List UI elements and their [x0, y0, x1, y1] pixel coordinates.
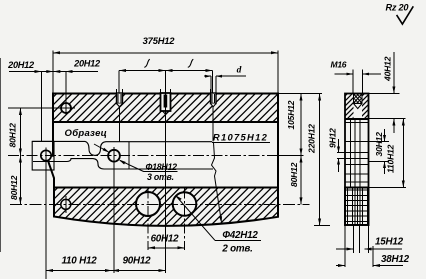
dimension l first [119, 59, 166, 93]
dimension 110H12 side [369, 119, 407, 188]
svg-text:80H12: 80H12 [8, 123, 18, 148]
specimen bottom edge [33, 159, 213, 169]
centerline right F18 circle vertical / 110-90H12 extension [113, 147, 115, 273]
centerline band hole 1 below [119, 107, 121, 142]
side view internal vertical lines [351, 119, 361, 225]
svg-text:38H12: 38H12 [381, 254, 410, 265]
dimension 60H12 between big circles [148, 234, 185, 250]
centerline lower F18 circle vertical [65, 196, 67, 213]
dimension 40H12 [369, 52, 406, 133]
svg-text:105H12: 105H12 [286, 100, 296, 129]
svg-text:60H12: 60H12 [151, 234, 180, 245]
dimension 220H12 right [307, 94, 331, 226]
band hole 1 (threaded) [117, 89, 123, 107]
scan edge artifact left border [0, 58, 2, 252]
svg-text:110H12: 110H12 [386, 144, 396, 173]
dimension 38H12 [336, 254, 410, 267]
lower F18 circle in hatched block [61, 199, 71, 209]
band hole 2 middle (with stud) [161, 89, 171, 114]
dimension 90H12 bottom [112, 256, 166, 273]
svg-text:20H12: 20H12 [73, 59, 101, 69]
svg-text:Ф18H12: Ф18H12 [146, 162, 178, 172]
dimension d (hole dia) [204, 66, 246, 94]
svg-text:15H12: 15H12 [375, 237, 404, 248]
svg-text:80H12: 80H12 [9, 175, 19, 200]
svg-text:Образец: Образец [65, 128, 108, 139]
svg-text:3 отв.: 3 отв. [147, 172, 174, 182]
specimen top edge right [95, 142, 212, 156]
side view top clamp hatched columns [322, 94, 390, 120]
upper clamp plate hatched band [28, 94, 301, 123]
leader F18H12 3 otv. with two arrows [94, 144, 178, 182]
centerline big circle 1 vertical [147, 189, 149, 251]
centerline band circle horizontal [8, 107, 75, 109]
centerline tab circle vertical / 110H12 extension [45, 148, 47, 279]
specimen tab rectangle [32, 141, 54, 170]
centerline lower circle row horizontal [10, 203, 310, 205]
svg-text:M16: M16 [331, 60, 347, 70]
big circle F42 no.2 [173, 192, 197, 216]
M16 threaded hole top [345, 94, 370, 109]
dimension 110H12 bottom left [46, 256, 112, 279]
svg-text:375H12: 375H12 [143, 35, 176, 46]
leader F42H12 2 otv. [175, 195, 261, 255]
dimension 30H12 [369, 129, 390, 174]
right F18 circle (3 holes callout target) [108, 150, 120, 162]
side view outer body [345, 94, 369, 226]
dimension 375H12 top [53, 35, 278, 94]
centerline band hole 3 below [212, 107, 214, 142]
dimension 80H12 left upper [8, 108, 22, 156]
specimen tab circle F18 [41, 150, 51, 160]
body right edge [277, 94, 279, 218]
specimen top edge left [32, 141, 95, 155]
svg-text:d: d [237, 66, 242, 76]
dimension l second [166, 59, 213, 93]
side view internal horizontal lines [345, 123, 369, 188]
main horizontal centerline of specimen row [8, 155, 304, 157]
dimension 80H12 left lower [9, 156, 22, 205]
svg-text:110 H12: 110 H12 [62, 256, 98, 267]
svg-text:220H12: 220H12 [307, 124, 317, 154]
svg-text:40H12: 40H12 [383, 56, 393, 82]
svg-text:Ф42H12: Ф42H12 [222, 230, 258, 241]
dimension 9H12 [328, 128, 346, 172]
svg-text:90H12: 90H12 [123, 256, 152, 267]
svg-text:20H12: 20H12 [7, 60, 35, 70]
band hole 3 (threaded) [211, 89, 217, 107]
svg-text:30H12: 30H12 [374, 132, 384, 157]
dimension 105H12 + 80H12 right shared line [278, 94, 322, 205]
specimen pocket vertical [128, 142, 130, 169]
centerline band circle vertical [65, 72, 67, 115]
svg-text:9H12: 9H12 [328, 128, 338, 148]
big circle F42 no.1 [136, 192, 160, 216]
dimension 20H12 second (edge to hole) [42, 59, 102, 74]
extension line middle hole down to bottom dims [165, 72, 167, 274]
surface finish symbol Rz 20 [386, 3, 414, 25]
centerlines overlay [8, 72, 310, 279]
centerline big circle 2 vertical [184, 189, 186, 251]
body left edge profile [49, 122, 54, 188]
band circle hole F18 top-left [61, 103, 71, 113]
svg-text:R1075H12: R1075H12 [213, 131, 268, 142]
svg-text:Rz 20: Rz 20 [386, 3, 410, 13]
dimension 15H12 [336, 237, 404, 251]
side view bottom block crosshatched [345, 188, 369, 226]
leader R1075H12 with break [212, 131, 271, 223]
dimension 20H12 first (tab protrusion) [7, 60, 41, 142]
svg-text:80H12: 80H12 [289, 162, 299, 187]
lower body block hatched with curved bottom R1075 [10, 188, 325, 236]
side view bottom extension lines [345, 225, 373, 267]
svg-text:2 отв.: 2 отв. [221, 244, 252, 255]
dimension M16 [331, 60, 382, 94]
